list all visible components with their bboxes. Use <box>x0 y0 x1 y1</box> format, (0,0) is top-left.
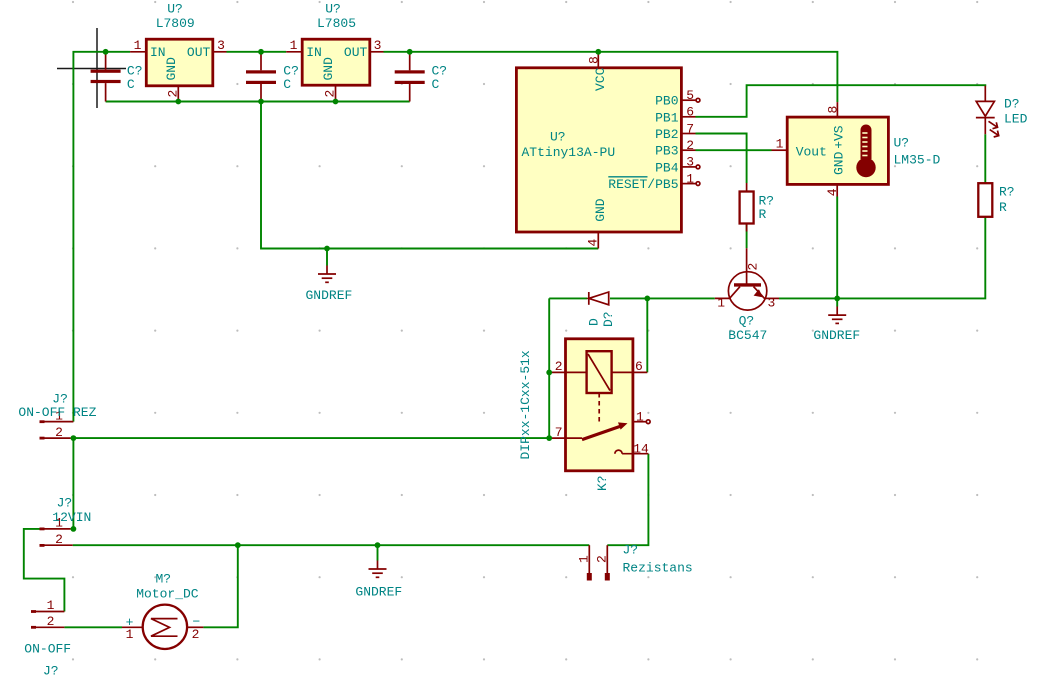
svg-text:D: D <box>587 318 602 326</box>
svg-text:L7805: L7805 <box>317 16 356 31</box>
svg-text:U?: U? <box>894 136 910 151</box>
svg-text:+VS: +VS <box>832 125 847 149</box>
motor M1 Motor_DC <box>122 572 203 650</box>
svg-text:1: 1 <box>577 555 592 563</box>
svg-text:8: 8 <box>825 106 840 114</box>
svg-text:2: 2 <box>323 90 338 98</box>
wire: LM35 GND pin down to emitter rail <box>836 197 838 299</box>
svg-text:2: 2 <box>192 627 200 642</box>
regulator U2 L7805 <box>286 2 383 102</box>
wire: capacitor ground bus <box>106 101 410 103</box>
wire: transistor emitter to GNDREF junction <box>779 297 837 299</box>
microcontroller U3 ATtiny13A-PU <box>516 53 699 249</box>
wire: bottom ground rail from J2 pin2 to J3 pin 1 <box>73 544 590 546</box>
svg-text:2: 2 <box>166 90 181 98</box>
svg-text:14: 14 <box>633 442 649 457</box>
junction <box>834 296 840 302</box>
wire: J2 pin1 jog down to J4 pin1 <box>24 529 65 612</box>
junction <box>644 296 650 302</box>
svg-text:7: 7 <box>686 121 694 136</box>
ground GNDREF (bottom rail) <box>355 545 402 599</box>
svg-text:2: 2 <box>55 425 63 440</box>
svg-text:M?: M? <box>156 572 172 587</box>
svg-text:PB0: PB0 <box>655 94 678 109</box>
svg-text:2: 2 <box>686 138 694 153</box>
svg-text:BC547: BC547 <box>728 328 767 343</box>
svg-text:1: 1 <box>636 410 644 425</box>
svg-text:LED: LED <box>1004 112 1028 127</box>
svg-text:4: 4 <box>825 188 840 196</box>
LED D2 <box>976 86 1028 137</box>
capacitor C1 <box>91 53 143 102</box>
svg-text:VCC: VCC <box>593 67 608 91</box>
svg-text:2: 2 <box>55 532 63 547</box>
wire: PB1 to LED anode <box>696 85 986 117</box>
svg-text:R: R <box>759 207 767 222</box>
wire: PB3 to LM35 Vout <box>696 149 772 151</box>
junction <box>71 526 77 532</box>
resistor R2 (LED) <box>978 183 1014 217</box>
svg-text:ATtiny13A-PU: ATtiny13A-PU <box>522 145 616 160</box>
capacitor C3 <box>395 53 447 102</box>
svg-text:12VIN: 12VIN <box>52 510 91 525</box>
svg-text:3: 3 <box>217 38 225 53</box>
svg-text:GND: GND <box>164 57 179 81</box>
cursor crosshair <box>57 28 126 108</box>
junction <box>324 246 330 252</box>
svg-text:GNDREF: GNDREF <box>813 328 860 343</box>
junction <box>103 49 109 55</box>
svg-text:D?: D? <box>1004 97 1020 112</box>
connector J2 12VIN <box>40 496 92 548</box>
svg-text:GNDREF: GNDREF <box>306 288 353 303</box>
svg-text:ON-OFF: ON-OFF <box>24 642 71 657</box>
svg-text:Motor_DC: Motor_DC <box>136 587 199 602</box>
sensor U4 LM35-D <box>772 102 941 196</box>
ground GNDREF (emitter rail) <box>813 298 860 343</box>
svg-text:PB1: PB1 <box>655 110 679 125</box>
svg-text:1: 1 <box>776 137 784 152</box>
resistor R1 (base) <box>740 183 775 232</box>
svg-text:1: 1 <box>47 598 55 613</box>
svg-text:C: C <box>283 77 291 92</box>
transistor Q1 BC547 <box>715 248 779 343</box>
wire: LED cathode to resistor R2 <box>984 134 986 183</box>
svg-text:4: 4 <box>586 239 601 247</box>
ground GNDREF (under C bus) <box>306 249 353 304</box>
junction <box>71 435 77 441</box>
svg-text:J?: J? <box>57 496 73 511</box>
wire: diode node down to relay coil right pin 6 <box>646 298 648 372</box>
wire: ground bus down and across to ATtiny GND <box>261 102 598 249</box>
svg-text:IN: IN <box>306 45 322 60</box>
svg-text:C: C <box>127 77 135 92</box>
junction <box>407 49 413 55</box>
wire: resistor R1 to Q1 base <box>746 224 748 249</box>
connector J4 ON-OFF <box>24 598 71 678</box>
svg-text:J?: J? <box>43 664 59 679</box>
junction <box>546 370 552 376</box>
junction <box>546 435 552 441</box>
svg-text:3: 3 <box>374 38 382 53</box>
svg-text:8: 8 <box>587 56 602 64</box>
junction <box>595 49 601 55</box>
svg-text:3: 3 <box>686 155 694 170</box>
junction <box>235 542 241 548</box>
wire: L7805 OUT rail to VCC and LM35 +VS <box>384 52 838 102</box>
wire: J1 pin2 to relay pin 7 <box>73 437 549 439</box>
svg-text:2: 2 <box>555 359 563 374</box>
svg-text:Q?: Q? <box>739 314 755 329</box>
junction <box>375 542 381 548</box>
junction <box>258 99 264 105</box>
svg-text:3: 3 <box>768 296 776 311</box>
svg-text:RESET/PB5: RESET/PB5 <box>608 177 678 192</box>
wire: L7809 OUT to L7805 IN <box>227 51 287 53</box>
thermometer icon <box>861 125 872 160</box>
svg-text:U?: U? <box>550 130 566 145</box>
diode D1 <box>587 292 617 327</box>
svg-text:K?: K? <box>595 475 610 491</box>
svg-text:ON-OFF REZ: ON-OFF REZ <box>18 405 96 420</box>
junction <box>258 49 264 55</box>
svg-text:2: 2 <box>47 614 55 629</box>
svg-text:OUT: OUT <box>187 45 211 60</box>
svg-text:7: 7 <box>555 425 563 440</box>
svg-text:2: 2 <box>746 263 761 271</box>
wire: J4 pin2 to motor + <box>64 626 122 628</box>
relay K1 DIPxx-1Cxx-51x <box>518 339 650 491</box>
svg-text:GNDREF: GNDREF <box>355 585 402 600</box>
wire: diode to transistor collector <box>610 297 715 299</box>
svg-text:C: C <box>432 77 440 92</box>
junction <box>333 99 339 105</box>
capacitor C2 <box>246 53 299 102</box>
svg-text:Rezistans: Rezistans <box>623 561 693 576</box>
wire: input rail from J1 pin1 up left side and along top to L7809 IN <box>73 52 130 422</box>
svg-text:1: 1 <box>717 296 725 311</box>
svg-text:5: 5 <box>686 88 694 103</box>
wire: resistor R2 to emitter rail <box>837 217 985 299</box>
connector J3 Rezistans <box>577 543 693 581</box>
junction <box>175 99 181 105</box>
svg-text:LM35-D: LM35-D <box>894 153 941 168</box>
wire: J1 pin2 down to J2 pin1 <box>72 438 74 529</box>
svg-text:DIPxx-1Cxx-51x: DIPxx-1Cxx-51x <box>518 350 533 459</box>
svg-text:PB3: PB3 <box>655 144 678 159</box>
svg-text:GND: GND <box>593 198 608 222</box>
wire: diode left segment <box>549 297 587 299</box>
svg-text:1: 1 <box>290 38 298 53</box>
wire: J3 pin 2 to relay pin 14 <box>607 454 648 546</box>
connector J1 ON-OFF REZ <box>18 392 96 440</box>
svg-text:J?: J? <box>623 543 639 558</box>
svg-text:1: 1 <box>134 38 142 53</box>
svg-text:R: R <box>999 200 1007 215</box>
svg-text:6: 6 <box>686 105 694 120</box>
svg-text:GND: GND <box>832 151 847 175</box>
svg-text:L7809: L7809 <box>156 16 195 31</box>
svg-text:Vout: Vout <box>796 145 827 160</box>
svg-text:U?: U? <box>325 2 341 17</box>
svg-text:U?: U? <box>167 2 183 17</box>
regulator U1 L7809 <box>130 2 226 102</box>
svg-text:R?: R? <box>999 185 1015 200</box>
svg-text:2: 2 <box>595 555 610 563</box>
wire: diode node to relay coil left <box>548 298 550 438</box>
svg-text:1: 1 <box>126 627 134 642</box>
svg-text:GND: GND <box>321 57 336 81</box>
svg-text:OUT: OUT <box>344 45 368 60</box>
svg-text:PB2: PB2 <box>655 127 678 142</box>
svg-text:6: 6 <box>635 359 643 374</box>
svg-text:D?: D? <box>601 311 616 327</box>
svg-text:PB4: PB4 <box>655 160 679 175</box>
wire: motor - up to ground rail <box>203 545 237 627</box>
wire: PB2 down to resistor R1 <box>696 134 747 184</box>
svg-text:1: 1 <box>686 171 694 186</box>
